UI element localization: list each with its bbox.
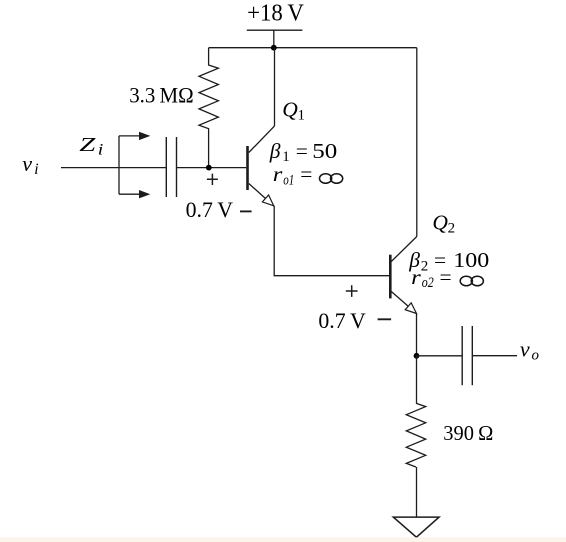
svg-text:o: o	[532, 348, 540, 364]
supply +18V terminal bar	[247, 29, 303, 31]
node Q1 base junction	[206, 165, 212, 171]
svg-text:r: r	[411, 265, 421, 289]
annotation beta2 = 100	[408, 248, 489, 274]
wire Q1 emitter to Q2 base	[274, 206, 389, 276]
svg-text:r: r	[273, 162, 283, 186]
Z_i measurement bracket with arrows	[119, 132, 150, 199]
wire capacitor to Q1 base	[177, 167, 247, 169]
Q2 label	[432, 210, 455, 236]
svg-text:0.7 V: 0.7 V	[186, 197, 233, 222]
wire output node to capacitor C2	[417, 355, 463, 357]
wire resistor to ground	[416, 467, 418, 517]
svg-text:1: 1	[282, 149, 290, 165]
wire input from v_i to capacitor	[61, 167, 166, 169]
ground	[393, 517, 439, 537]
resistor 390 Ω	[406, 403, 425, 467]
svg-text:i: i	[34, 161, 38, 178]
svg-text:i: i	[98, 141, 104, 158]
capacitor C1 (input coupling)	[166, 137, 176, 197]
svg-text:1: 1	[298, 108, 306, 124]
svg-text:Q: Q	[282, 97, 298, 121]
svg-text:v: v	[520, 336, 530, 361]
wire Q2 emitter to output node	[416, 314, 418, 356]
annotation beta1 = 50	[269, 139, 338, 165]
annotation r_o2 = infinity	[411, 265, 483, 291]
svg-text:Q: Q	[432, 210, 448, 234]
wire supply bar to rail node	[273, 30, 275, 48]
v_i label	[22, 151, 38, 178]
bottom page strip	[0, 537, 566, 542]
Q1 label	[282, 97, 305, 123]
svg-text:50: 50	[312, 139, 337, 163]
svg-text:o1: o1	[283, 173, 294, 189]
svg-text:100: 100	[453, 248, 489, 272]
wire top rail	[209, 47, 417, 49]
v_o label	[520, 336, 540, 363]
annotation r_o1 = infinity	[273, 162, 343, 189]
node output junction	[414, 353, 420, 359]
annotation minus sign for Q1 vbe	[240, 210, 252, 212]
Z_i label	[79, 134, 103, 158]
svg-text:=: =	[440, 265, 452, 289]
svg-text:2: 2	[448, 221, 456, 237]
svg-text:0.7 V: 0.7 V	[318, 308, 365, 333]
svg-text:=: =	[296, 139, 308, 163]
svg-text:2: 2	[421, 258, 429, 274]
wire capacitor C2 to v_o	[472, 355, 517, 357]
resistor 3.3 MΩ	[199, 48, 218, 168]
transistor Q2	[390, 237, 417, 314]
svg-text:3.3 MΩ: 3.3 MΩ	[129, 82, 194, 107]
wire output node to resistor 390	[416, 356, 418, 403]
svg-text:Z: Z	[79, 134, 96, 156]
annotation plus sign for Q1 vbe	[207, 174, 218, 185]
svg-text:+18 V: +18 V	[247, 0, 304, 26]
wire Q2 collector to rail	[416, 48, 418, 237]
wire Q1 collector to rail	[274, 48, 276, 126]
svg-text:390 Ω: 390 Ω	[443, 421, 493, 445]
capacitor C2 (output coupling)	[462, 326, 472, 385]
svg-text:=: =	[300, 162, 312, 186]
annotation minus sign for Q2 vbe	[378, 318, 392, 320]
svg-text:β: β	[269, 139, 281, 163]
node supply junction	[271, 45, 277, 51]
annotation plus sign for Q2 vbe	[346, 285, 358, 297]
transistor Q1	[248, 126, 275, 206]
svg-text:o2: o2	[422, 275, 434, 291]
svg-text:v: v	[22, 151, 32, 176]
